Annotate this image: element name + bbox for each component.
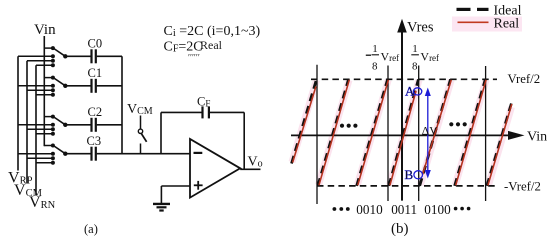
svg-text:C0: C0 — [88, 37, 103, 51]
capacitor C0 — [65, 37, 122, 64]
op-amp U1 — [190, 139, 240, 198]
capacitor C2 — [65, 105, 122, 132]
watermark faint artifacts — [188, 38, 223, 63]
switch S1 input selection row C1 — [18, 76, 68, 97]
svg-text:8: 8 — [412, 61, 418, 73]
legend label Real — [494, 17, 520, 32]
legend real line sample — [458, 21, 489, 23]
pink halo watermark behind transfer curves — [292, 17, 522, 186]
ellipsis codes right — [454, 207, 471, 211]
label (a) — [84, 222, 98, 236]
label Vref/2 — [508, 72, 541, 86]
switch S0 input selection row C0 — [18, 46, 68, 67]
code label 0010 — [356, 202, 383, 217]
svg-text:0011: 0011 — [391, 202, 417, 217]
label Vin axis — [527, 130, 547, 145]
code label 0100 — [424, 202, 451, 217]
ellipsis curve left — [340, 124, 358, 128]
label 1/8 Vref fraction — [411, 43, 439, 73]
svg-text:Real: Real — [494, 17, 520, 32]
capacitor CF — [161, 95, 244, 119]
legend label Ideal — [494, 4, 522, 19]
node VRP label — [8, 170, 33, 187]
switch S2 input selection row C2 — [18, 115, 68, 136]
wire feedback left branch — [160, 112, 162, 153]
legend ideal dashed sample — [457, 8, 489, 11]
svg-text:Vref/2: Vref/2 — [508, 72, 541, 86]
wire VRN bus — [35, 65, 37, 195]
code transition edge E1 — [387, 66, 389, 202]
svg-text:Vin: Vin — [34, 22, 56, 38]
wire non-inverting input — [161, 185, 190, 187]
svg-text:C2: C2 — [88, 105, 103, 119]
code transition edge E0 — [316, 65, 318, 204]
svg-text:B: B — [405, 167, 414, 182]
node VRN label — [29, 194, 56, 211]
label Vres — [407, 20, 434, 36]
svg-text:C3: C3 — [87, 134, 102, 148]
ideal residue ramps dashed — [292, 79, 512, 186]
svg-text:0100: 0100 — [424, 202, 451, 217]
svg-text:Ci =2C (i=0,1~3): Ci =2C (i=0,1~3) — [164, 24, 261, 39]
code transition edge E2 — [418, 66, 420, 202]
code label 0011 — [391, 202, 417, 217]
svg-text:1: 1 — [372, 43, 378, 55]
wire summing node to op-amp inverting input — [97, 153, 190, 155]
svg-text:-Vref/2: -Vref/2 — [504, 180, 541, 194]
node VCM label — [14, 182, 43, 199]
axis X Vin — [291, 131, 525, 140]
svg-text:Vres: Vres — [407, 20, 434, 36]
point A marker — [405, 84, 422, 99]
ellipsis curve right — [449, 122, 467, 126]
svg-text:Vin: Vin — [527, 130, 547, 145]
svg-text:1: 1 — [412, 43, 418, 55]
ground — [153, 186, 170, 211]
annotation capacitor values line 2 — [164, 40, 203, 55]
point B marker — [405, 167, 423, 182]
code transition edge E3 — [485, 66, 487, 201]
wire feedback right branch — [243, 112, 245, 169]
label -1/8 Vref fraction — [366, 43, 399, 73]
reference level dashed -Vref/2 — [317, 185, 497, 187]
capacitor C3 — [65, 134, 101, 161]
real residue ramps red — [293, 80, 512, 186]
label delta V — [422, 126, 438, 138]
node VCM label at reset switch — [127, 102, 153, 117]
svg-text:Real: Real — [200, 38, 223, 52]
switch S3 input selection row C3 — [18, 144, 68, 165]
node Vo label — [248, 155, 263, 170]
svg-text:′′′′′′: ′′′′′′ — [188, 53, 200, 63]
ellipsis codes left — [333, 207, 350, 211]
label (b) — [391, 221, 409, 237]
svg-text:(b): (b) — [391, 221, 409, 237]
svg-text:0010: 0010 — [356, 202, 383, 217]
wire VRP bus — [17, 56, 19, 170]
arrow delta V — [425, 88, 431, 179]
wire capacitor top-plate bus — [121, 56, 123, 153]
svg-text:C1: C1 — [88, 66, 103, 80]
svg-text:(a): (a) — [84, 222, 98, 236]
wire Vin vertical bus — [43, 36, 45, 146]
node Vin label — [34, 22, 56, 38]
reference level dashed +Vref/2 — [311, 78, 497, 80]
annotation capacitor values line 1 — [164, 24, 261, 39]
svg-text:ΔV: ΔV — [422, 126, 438, 138]
axis Y Vres — [397, 19, 407, 201]
switch VCM reset — [138, 116, 146, 154]
svg-text:8: 8 — [372, 61, 378, 73]
label -Vref/2 — [504, 180, 541, 194]
wire VCM bus — [26, 61, 28, 184]
capacitor C1 — [65, 66, 122, 93]
wire output Vo — [240, 168, 260, 170]
